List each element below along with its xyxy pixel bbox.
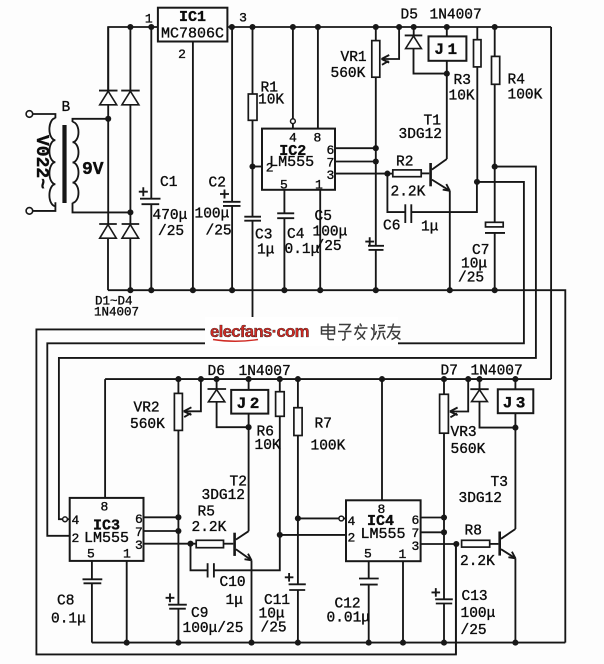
svg-text:C3: C3 [255,228,272,244]
VR3 wiper arm [450,379,468,411]
resistor R4 100K [494,27,496,56]
ground rail top section [108,290,565,642]
capacitor C11 10u/25 [289,583,306,585]
svg-text:1N4007: 1N4007 [94,306,139,320]
svg-text:D5: D5 [401,8,418,24]
svg-text:R2: R2 [396,155,413,171]
wire IC3 pin7 [144,530,179,532]
svg-text:0.01μ: 0.01μ [327,611,371,627]
transformer B primary terminal top [26,111,33,118]
wire IC3 pin3 output [144,543,191,545]
capacitor C8 0.1u [91,561,93,579]
svg-text:5: 5 [364,547,372,562]
svg-text:3DG12: 3DG12 [459,491,503,507]
svg-text:VR2: VR2 [134,401,160,417]
svg-text:560K: 560K [130,417,165,433]
svg-text:VR1: VR1 [341,50,367,66]
wire +V drop to bottom section [550,27,552,379]
svg-text:/25: /25 [461,623,487,639]
svg-text:R7: R7 [315,417,332,433]
node J2/D6/T2 collector [246,424,252,430]
svg-text:0.1μ: 0.1μ [285,242,320,258]
svg-text:B: B [62,100,71,116]
capacitor C2 100u/25 [231,27,233,202]
transformer primary winding [49,118,55,206]
junction dots on ground rail [127,287,133,293]
svg-text:elecfans·com: elecfans·com [210,322,309,341]
capacitor C1 470u/25 [150,27,152,198]
wire IC4 pin3 to feedback loop [455,544,457,655]
svg-text:/25: /25 [261,621,287,637]
transistor T1 3DG12 [429,163,432,186]
svg-text:D7: D7 [441,364,458,380]
capacitor C3 1u [252,167,254,217]
wire IC3 pin1 to ground [126,561,128,643]
capacitor C13 100u/25 [435,598,453,600]
svg-text:/25: /25 [458,271,484,287]
resistor R8 2.2K [421,543,457,545]
wire IC2 pin1 to ground [319,190,321,290]
VR1 wiper arm [382,27,400,59]
wire IC3 pin6 [144,516,179,518]
svg-text:1N4007: 1N4007 [430,8,482,24]
capacitor C9 100u/25 [168,604,187,606]
resistor R7 100K [297,379,299,408]
svg-text:5: 5 [87,547,95,562]
junction dots on +V rail [127,24,133,30]
svg-text:1: 1 [123,547,131,562]
capacitor C4 0.1u [283,190,285,214]
voltage regulator IC1 MC7806C [158,8,228,42]
wire bridge leg2 bottom [129,238,131,290]
svg-text:J2: J2 [237,395,263,413]
IC4 pin4 circle [298,517,339,519]
wire IC1 pin2 to ground rail [192,42,194,291]
svg-text:D6: D6 [208,364,225,380]
wire IC2 pin8 to +V [317,27,319,129]
wire primary top lead [33,114,56,118]
node IC2 pin2 junction [249,163,255,169]
svg-text:100μ: 100μ [195,207,230,223]
transformer B primary terminal bottom [26,208,33,215]
svg-text:C1: C1 [160,175,177,191]
svg-text:10K: 10K [255,438,281,454]
svg-text:C6: C6 [383,219,400,235]
junction dots on bottom +V rail [175,376,181,382]
node secondary top / bridge [105,116,111,122]
svg-text:J1: J1 [434,41,460,59]
diode D5 1N4007 [413,27,415,35]
svg-text:VR3: VR3 [451,425,477,441]
svg-text:C13: C13 [462,589,488,605]
svg-text:2.2K: 2.2K [192,520,227,536]
diode D2 (bridge top-right) [129,27,131,91]
junction dots on bottom ground rail [124,640,130,646]
wire IC2 pin6 [335,147,376,149]
svg-text:R3: R3 [454,73,471,89]
svg-text:4: 4 [289,130,297,145]
svg-text:560K: 560K [451,442,486,458]
svg-text:/25: /25 [316,239,342,255]
node secondary bottom / bridge [127,209,133,215]
svg-text:3DG12: 3DG12 [399,127,443,143]
node R4/C7/reset-link [492,164,498,170]
+V rail bottom section [105,378,551,380]
node J3/D7/T3 collector [512,425,518,431]
watermark background [205,317,398,346]
svg-text:LM555: LM555 [269,154,314,171]
svg-text:3: 3 [327,168,335,183]
wire bridge leg1 middle [107,105,109,224]
potentiometer VR3 560K [443,379,445,394]
svg-text:T3: T3 [491,475,508,491]
svg-text:10K: 10K [449,89,475,105]
potentiometer VR1 560K [375,27,377,41]
ground rail bottom section [92,642,565,644]
IC2 pin4 reset circle [292,27,294,119]
diode D7 1N4007 [479,379,481,389]
capacitor C10 1u [191,544,208,571]
wire trigger link to IC3 pin2 [47,182,524,536]
resistor R2 2.2K [384,171,390,177]
transformer secondary winding [73,122,79,203]
diode D4 (bridge bottom-right) [122,223,140,225]
svg-text:1μ: 1μ [421,220,439,236]
svg-text:R4: R4 [508,73,525,89]
wire IC2 pin3 output [335,173,387,175]
relay J3 [514,379,516,389]
svg-text:1μ: 1μ [226,593,244,609]
wire bridge leg2 middle [129,105,131,224]
svg-text:C5: C5 [315,209,332,225]
transformer core [62,125,66,203]
node J1/D5/T1 collector [444,71,450,77]
timer IC2 LM555 [262,129,335,190]
diode D1 (bridge top-left) [107,27,109,91]
svg-text:1: 1 [399,547,407,562]
svg-text:560K: 560K [331,66,366,82]
wire bridge leg1 bottom [107,238,109,290]
relay J1 [446,27,448,36]
svg-text:C4: C4 [287,227,304,243]
svg-text:2.2K: 2.2K [460,554,495,570]
diode D3 (bridge bottom-left) [99,223,117,225]
timer IC4 LM555 [346,500,421,561]
capacitor C7 10u/25 [494,167,496,223]
svg-text:3: 3 [239,11,247,26]
node R6/C10/IC4 pin2 [277,532,283,538]
wire primary bottom lead [33,202,56,211]
node R7/IC4 pin4 [295,515,301,521]
svg-text:1μ: 1μ [257,243,275,259]
svg-text:C10: C10 [220,575,246,591]
svg-text:/25: /25 [206,224,232,240]
svg-text:10K: 10K [258,93,284,109]
svg-text:8: 8 [314,130,322,145]
resistor R6 10K [279,379,281,392]
wire IC3 pin8 riser [104,379,106,498]
capacitor C6 1u [387,174,404,213]
svg-text:0.1μ: 0.1μ [51,612,86,628]
svg-text:8: 8 [378,502,386,517]
svg-text:C9: C9 [191,606,208,622]
svg-text:2: 2 [72,531,80,546]
VR2 wiper arm [184,379,201,411]
resistor R3 10K [476,27,478,40]
svg-text:LM555: LM555 [360,526,405,543]
wire IC4 pin6 [421,517,444,519]
wire feedback loop C3 to IC4 pin3 [36,329,456,654]
potentiometer VR2 560K [177,379,179,393]
svg-text:100K: 100K [508,88,543,104]
svg-text:3: 3 [412,539,420,554]
svg-text:R5: R5 [198,505,215,521]
svg-text:R8: R8 [465,524,482,540]
svg-text:9V: 9V [82,160,104,180]
svg-text:2: 2 [348,531,356,546]
svg-text:MC7806C: MC7806C [161,26,224,43]
svg-text:1N4007: 1N4007 [471,364,523,380]
svg-text:2: 2 [178,47,186,62]
svg-text:1N4007: 1N4007 [239,364,291,380]
wire IC4 pin8 to +V [381,379,383,500]
wire IC4 pin1 to ground [402,561,404,642]
svg-text:470μ: 470μ [153,208,188,224]
svg-text:IC1: IC1 [179,9,206,26]
svg-text:C2: C2 [209,176,226,192]
node R3/C6/trigger-link [474,179,480,185]
IC3 pin4 circle [63,517,68,522]
svg-text:C8: C8 [57,594,74,610]
svg-text:/25: /25 [158,224,184,240]
svg-text:2.2K: 2.2K [391,185,426,201]
wire IC2 pin7 [335,161,376,163]
wire secondary top lead [73,119,109,122]
svg-text:1: 1 [315,178,323,193]
wire top +V rail (right of IC1) [227,26,551,28]
transistor T2 3DG12 [233,533,236,556]
svg-text:J3: J3 [503,394,529,412]
svg-text:3: 3 [135,538,143,553]
svg-text:3DG12: 3DG12 [202,488,246,504]
resistor R5 2.2K [187,541,193,547]
wire reset link to IC3 pin4 [59,167,536,520]
relay J2 [248,379,250,390]
wire IC4 pin2 [280,534,346,536]
svg-text:4: 4 [348,514,356,529]
svg-text:100μ: 100μ [461,606,496,622]
capacitor C5 100u/25 [368,245,384,247]
timer IC3 LM555 [70,498,144,561]
wire secondary bottom lead [73,203,131,213]
diode D6 1N4007 [216,379,218,389]
svg-text:4: 4 [72,513,80,528]
svg-text:100K: 100K [311,439,346,455]
svg-text:8: 8 [101,500,109,515]
resistor R1 10K [252,27,254,94]
svg-text:2: 2 [266,161,274,176]
svg-text:V022~: V022~ [31,135,51,189]
svg-text:LM555: LM555 [84,530,129,547]
wire IC4 pin7 [421,531,444,533]
capacitor C12 0.01u [368,561,370,578]
watermark chinese text [322,324,401,341]
transistor T3 3DG12 [498,532,501,556]
wire top +V rail (left of IC1) [108,27,158,91]
svg-text:100μ/25: 100μ/25 [183,621,244,637]
